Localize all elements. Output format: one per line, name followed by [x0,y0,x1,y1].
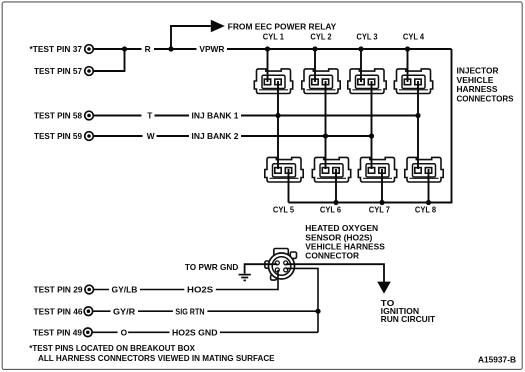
injector connector CYL 8 [405,157,443,182]
svg-text:CYL 6: CYL 6 [320,205,342,215]
svg-text:CYL 5: CYL 5 [273,205,295,215]
svg-text:TEST PIN 29: TEST PIN 29 [34,285,83,295]
junction node VPWR/relay branch [168,46,173,51]
wire CYL3 drive to INJ BANK 2 and CYL7 feed [371,81,373,169]
wire branch to EEC power relay [171,26,211,49]
junction node return/CYL8 [426,200,431,205]
wire VPWR tap to CYL3 injector [360,49,362,82]
label net INJ BANK 1 [189,111,241,121]
svg-text:FROM EEC POWER RELAY: FROM EEC POWER RELAY [228,21,337,31]
test pin 37 [85,45,94,54]
arrowhead to ignition run circuit [377,282,391,294]
injector connector CYL 3 [348,69,386,94]
wire CYL2 drive to INJ BANK 2 and CYL6 feed [325,81,327,169]
wire CYL7 return drop [381,169,383,203]
injector connector CYL 1 [254,69,292,94]
test pin 59 [85,132,94,141]
wire HO2S GND to test pin 49 [92,331,318,333]
wire CYL4 drive to INJ BANK 1 and CYL8 feed [417,81,419,169]
junction node VPWR/CYL1 [265,46,270,51]
label TO IGNITION RUN CIRCUIT [381,298,436,324]
label wire colour T [142,111,155,121]
svg-text:GY/R: GY/R [113,306,135,316]
wire CYL8 return drop [428,169,430,203]
injector connector CYL 5 [265,157,303,182]
HO2S vehicle harness connector [265,249,297,281]
svg-text:INJ BANK 2: INJ BANK 2 [192,131,239,141]
label net HO2S [184,285,216,295]
label wire colour GY/R [111,306,139,316]
svg-text:CYL 4: CYL 4 [403,32,425,42]
injector connector CYL 6 [312,157,350,182]
label INJECTOR VEHICLE HARNESS CONNECTORS [457,65,514,103]
wire VPWR tap to CYL1 injector [267,49,269,82]
test pin 57 [85,67,94,76]
svg-text:VPWR: VPWR [199,44,224,54]
svg-text:T: T [147,111,152,121]
junction node pin57/VPWR [122,46,127,51]
label net INJ BANK 2 [189,131,241,141]
svg-text:O: O [121,327,128,337]
svg-text:CYL 2: CYL 2 [310,32,332,42]
test pin 29 [85,285,94,294]
test pin 46 [84,307,93,316]
test pin 49 [84,328,93,337]
svg-text:GY/LB: GY/LB [112,285,138,295]
wire HO2S heater to ignition run circuit [286,264,384,282]
label wire colour W [143,131,157,141]
wire VPWR tap to CYL4 injector [407,49,409,82]
junction node VPWR/CYL4 [405,46,410,51]
arrowhead to EEC power relay [211,20,225,32]
svg-text:TEST PIN 49: TEST PIN 49 [33,327,82,337]
wire VPWR bus (test pin 37 to right loop) [93,48,451,50]
junction node SIG RTN / HO2S GND [315,309,320,314]
svg-text:*TEST PINS LOCATED ON BREAKOUT: *TEST PINS LOCATED ON BREAKOUT BOX [29,344,195,353]
svg-text:CYL 8: CYL 8 [415,205,437,215]
label net VPWR [197,44,228,54]
test pin 58 [85,111,94,120]
svg-text:W: W [147,131,155,141]
wire INJ BANK 2 (test pin 59 line) [93,135,371,137]
svg-text:HO2S: HO2S [187,285,214,295]
wire HO2S heater to PWR GND [245,264,278,273]
svg-text:CONNECTOR: CONNECTOR [305,251,359,261]
wire VPWR tap to CYL2 injector [314,49,316,82]
svg-text:CYL 1: CYL 1 [263,32,285,42]
svg-text:ALL HARNESS CONNECTORS VIEWED: ALL HARNESS CONNECTORS VIEWED IN MATING … [38,354,275,363]
wire SIG RTN to test pin 46 [93,310,318,312]
svg-text:TO PWR GND: TO PWR GND [185,262,238,272]
label wire colour O [118,327,129,337]
svg-text:INJ BANK 1: INJ BANK 1 [192,111,239,121]
svg-text:CYL 7: CYL 7 [369,205,391,215]
HO2S connector pin 1 [275,261,279,265]
label wire colour R [142,44,155,54]
svg-text:A15937-B: A15937-B [478,354,516,364]
svg-text:TEST PIN 57: TEST PIN 57 [34,66,82,76]
wire VPWR return bus to right loop [289,49,452,203]
wire HO2S signal to test pin 29 [93,270,278,290]
svg-text:HO2S GND: HO2S GND [172,327,218,337]
svg-text:TEST PIN 59: TEST PIN 59 [34,131,82,141]
label net SIG RTN [173,306,208,316]
svg-text:CONNECTORS: CONNECTORS [457,94,514,104]
wire CYL5 return drop [288,169,290,203]
injector connector CYL 2 [302,69,340,94]
svg-text:CYL 3: CYL 3 [356,32,378,42]
svg-text:R: R [145,44,151,54]
HO2S connector pin 3 [275,268,279,272]
injector connector CYL 4 [394,69,432,94]
svg-text:RUN CIRCUIT: RUN CIRCUIT [381,314,436,324]
svg-text:TEST PIN 46: TEST PIN 46 [34,306,83,316]
svg-text:*TEST PIN 37: *TEST PIN 37 [30,44,83,54]
wire INJ BANK 1 (test pin 58 line) [93,115,418,117]
label wire colour GY/LB [109,285,140,295]
junction node VPWR/CYL3 [358,46,363,51]
junction node return/CYL7 [379,200,384,205]
power ground symbol [239,275,251,281]
injector connector CYL 7 [358,157,396,182]
junction node INJ BANK2/CYL3 [369,133,374,138]
wire CYL1 drive to INJ BANK 1 and CYL5 feed [277,81,279,169]
junction node INJ BANK2/CYL2 [323,133,328,138]
label HEATED OXYGEN SENSOR (HO2S) VEHICLE HARNESS CONNECTOR [305,223,385,260]
svg-text:SIG RTN: SIG RTN [175,306,204,316]
junction node INJ BANK1/CYL1 [275,113,280,118]
wire HO2S ground from connector to sig rtn / pin 49 [286,268,318,332]
HO2S connector pin 4 [284,268,288,272]
wire test pin 57 branch up to VPWR node [93,49,124,71]
label net HO2S GND [170,327,221,337]
wire CYL6 return drop [335,169,337,203]
HO2S connector pin 2 [284,261,288,265]
junction node INJ BANK1/CYL4 [415,113,420,118]
junction node return/CYL6 [333,200,338,205]
junction node VPWR/CYL2 [312,46,317,51]
svg-text:TEST PIN 58: TEST PIN 58 [34,111,82,121]
